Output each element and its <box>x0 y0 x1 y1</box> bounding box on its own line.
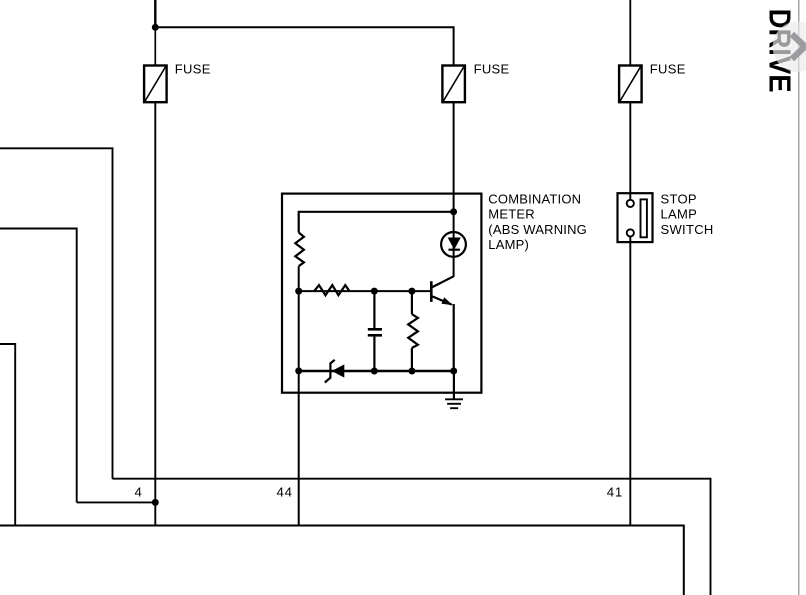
svg-text:COMBINATION: COMBINATION <box>488 192 581 207</box>
svg-text:FUSE: FUSE <box>650 62 686 77</box>
svg-text:4: 4 <box>134 485 141 500</box>
wire: stop lamp switch down to bottom bus <box>629 237 631 526</box>
svg-text:(ABS WARNING: (ABS WARNING <box>488 222 587 237</box>
wire: horizontal bus y=27.3 from node to fuse 2 branch <box>155 26 453 28</box>
fuse F2 (middle) <box>442 66 465 103</box>
node: junction dot at (298.7,370.9) <box>295 367 302 374</box>
wire: ignition feed vertical to fuse 3 (x=630.3) <box>629 0 631 66</box>
wire: y=502.4 across to junction at x=155.3 <box>77 501 156 503</box>
resistor R3 (vertical, at transistor base) <box>408 291 418 371</box>
svg-text:41: 41 <box>607 485 623 500</box>
resistor R1 (vertical, left) <box>295 233 304 267</box>
wire: fuse 2 down into combination meter to LED junction <box>453 102 455 277</box>
node: junction dot at (453.7,371) <box>450 368 457 375</box>
svg-text:METER: METER <box>488 207 535 222</box>
svg-text:STOP: STOP <box>661 192 697 207</box>
wire: R1 down through junctions and out of box to 44 <box>298 266 300 525</box>
wire: from node down to fuse 1 <box>154 27 156 65</box>
node: junction dot at (298.7,291.1) <box>295 288 302 295</box>
wire: internal bottom rail y=371 <box>299 370 454 373</box>
wire: ground bus y=525.5 across and down x=683.8 <box>0 526 684 595</box>
wire: fuse 3 down to stop lamp switch <box>629 102 631 200</box>
node: junction dot at (374.3,291.1) <box>371 288 378 295</box>
wire A: left feed y=148.3 over and down x=112.5 <box>0 148 113 478</box>
next-page button: light circle <box>773 21 806 72</box>
wire: base rail y=291.1 from R1 to transistor base <box>299 290 432 292</box>
wire B: left feed y=228.5 over and down x=76.7 <box>0 229 77 503</box>
combination meter box U1 <box>282 194 481 393</box>
transistor Q1 (NPN) <box>431 276 453 371</box>
page edge rule (grey) <box>798 0 800 595</box>
wire: fuse 1 down to bottom junction and bus (x=155.3) <box>154 102 156 525</box>
node: junction dot at (453.6,211.8) <box>450 208 457 215</box>
ground <box>445 371 463 408</box>
node: junction dot at (411.9,371) <box>408 368 415 375</box>
resistor R2 (horizontal, in base rail) <box>314 285 349 295</box>
wire: internal top rail y=211.8 <box>299 212 454 233</box>
capacitor C1 <box>368 291 382 371</box>
node: junction dot at (155.3,502.4) <box>152 499 159 506</box>
svg-text:44: 44 <box>277 485 293 500</box>
zener diode D2 (in bottom rail) <box>325 360 345 383</box>
LED D1 (ABS warning lamp) <box>441 232 466 257</box>
wire C: left feed y=344 over and down x=15.2 <box>0 344 15 526</box>
next-page button: chevron <box>792 34 805 59</box>
wire: battery feed vertical into node at top (x=155.3) <box>154 0 156 27</box>
svg-text:SWITCH: SWITCH <box>661 222 714 237</box>
node: junction dot at (411.9,291.1) <box>408 288 415 295</box>
stop lamp switch S1 <box>618 193 653 242</box>
svg-text:LAMP: LAMP <box>661 207 698 222</box>
fuse F3 (right) <box>619 66 642 103</box>
svg-text:FUSE: FUSE <box>175 62 211 77</box>
fuse F1 (left) <box>144 66 167 103</box>
svg-text:FUSE: FUSE <box>474 62 510 77</box>
node: junction dot at (374.3,371) <box>371 368 378 375</box>
node: junction dot at (155.3,27.3) <box>152 24 159 31</box>
svg-text:LAMP): LAMP) <box>488 237 529 252</box>
wire: output bus y=478.7 across to right and down x=710.5 <box>113 479 711 595</box>
wire: branch down from bus to fuse 2 (x=453.6) <box>453 26 455 65</box>
